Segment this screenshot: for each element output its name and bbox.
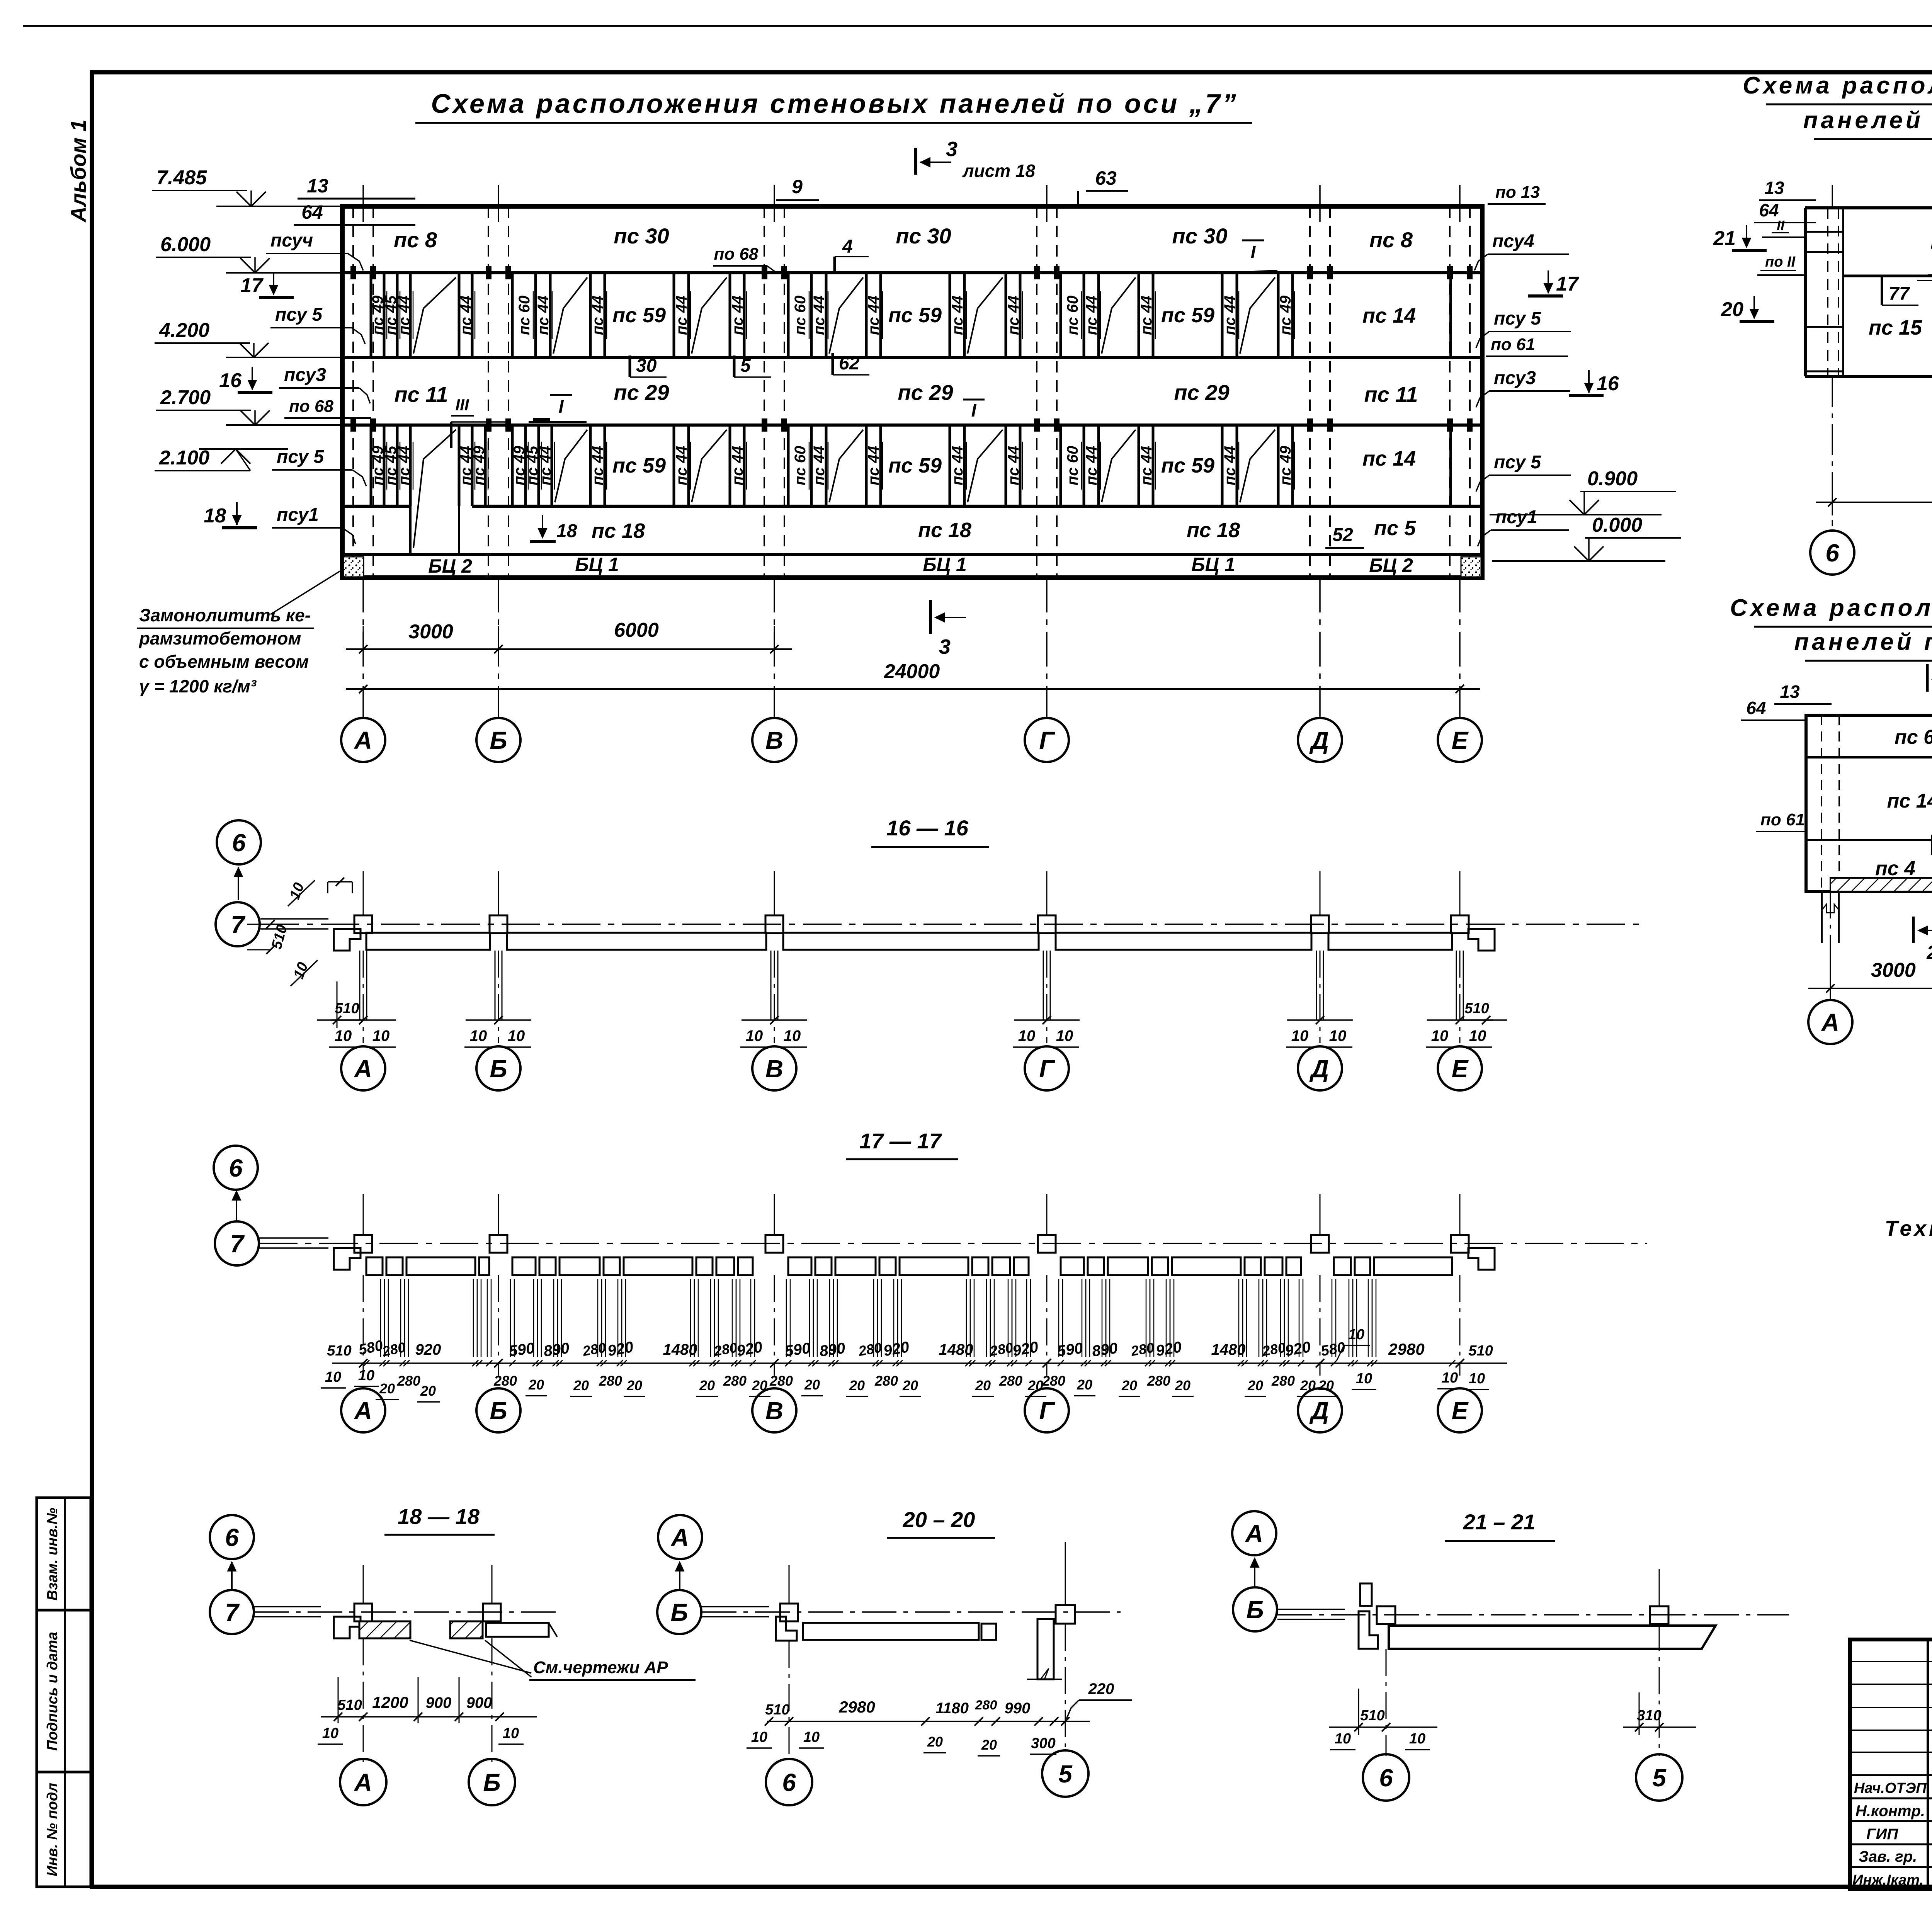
svg-text:20: 20 xyxy=(699,1378,715,1393)
svg-text:пс 15: пс 15 xyxy=(1869,316,1922,339)
svg-text:пс 30: пс 30 xyxy=(896,224,951,248)
svg-text:20: 20 xyxy=(981,1737,997,1753)
svg-text:4: 4 xyxy=(842,236,853,257)
axis dashdot below 17-17 xyxy=(363,1275,364,1376)
svg-text:III: III xyxy=(455,396,469,414)
scheme 6 column stubs below xyxy=(1821,891,1823,943)
svg-text:2980: 2980 xyxy=(838,1698,875,1716)
svg-text:10: 10 xyxy=(746,1027,763,1044)
axis circles 6/5 scheme B xyxy=(1810,531,1854,575)
strip band2 bay G-D xyxy=(1060,273,1062,357)
svg-text:920: 920 xyxy=(415,1341,441,1358)
strip band4 bay V-G xyxy=(787,425,790,506)
svg-text:5: 5 xyxy=(1652,1764,1667,1792)
svg-text:10: 10 xyxy=(325,1369,341,1385)
svg-text:пс 5: пс 5 xyxy=(1374,517,1416,540)
svg-text:пс 49: пс 49 xyxy=(1277,446,1294,485)
svg-text:10: 10 xyxy=(1409,1731,1425,1747)
svg-text:рамзитобетоном: рамзитобетоном xyxy=(138,628,301,648)
svg-text:пс 59: пс 59 xyxy=(612,454,666,477)
row line under ps11/ps29 band xyxy=(342,423,1482,427)
svg-text:17 — 17: 17 — 17 xyxy=(859,1129,942,1153)
corner wall piece 20-20 xyxy=(776,1617,797,1641)
svg-text:0.000: 0.000 xyxy=(1592,514,1642,536)
hatched slab B 18-18 xyxy=(450,1621,483,1638)
svg-text:280: 280 xyxy=(1042,1373,1065,1389)
svg-text:1480: 1480 xyxy=(1211,1341,1246,1358)
svg-text:Схема расположения стеновых: Схема расположения стеновых xyxy=(1743,72,1932,99)
svg-text:6000: 6000 xyxy=(614,619,659,641)
svg-text:17: 17 xyxy=(240,274,264,297)
svg-text:20: 20 xyxy=(420,1383,436,1399)
svg-text:10: 10 xyxy=(503,1725,519,1742)
svg-text:10: 10 xyxy=(1056,1027,1073,1044)
wall axis line 16-16 xyxy=(260,923,1647,925)
axis circles 17-17 xyxy=(341,1388,385,1432)
svg-text:БЦ 1: БЦ 1 xyxy=(1191,554,1235,575)
svg-text:пс 44: пс 44 xyxy=(729,446,746,485)
svg-text:пс 44: пс 44 xyxy=(949,296,966,335)
svg-text:пс 29: пс 29 xyxy=(614,380,669,405)
view circles 6/7 for 18-18 xyxy=(210,1515,254,1559)
mark 30 under band2 xyxy=(629,355,631,377)
svg-text:280: 280 xyxy=(999,1373,1022,1389)
svg-text:10: 10 xyxy=(358,1367,374,1384)
svg-text:Б: Б xyxy=(490,1055,507,1083)
svg-text:Е: Е xyxy=(1452,726,1469,754)
svg-text:А: А xyxy=(670,1524,689,1551)
paper edge top line xyxy=(23,25,1932,27)
svg-text:10: 10 xyxy=(1431,1027,1449,1044)
svg-text:20: 20 xyxy=(573,1378,589,1393)
axis dashdot + circles 18-18 xyxy=(363,1638,364,1762)
svg-text:280: 280 xyxy=(723,1373,747,1389)
svg-text:64: 64 xyxy=(1746,698,1766,718)
svg-text:220: 220 xyxy=(1088,1680,1114,1697)
thin slab right 18-18 xyxy=(486,1623,549,1637)
svg-text:пс 44: пс 44 xyxy=(1083,446,1100,485)
svg-text:I: I xyxy=(1251,242,1256,262)
svg-text:γ = 1200 кг/м³: γ = 1200 кг/м³ xyxy=(139,676,257,696)
svg-text:10: 10 xyxy=(1329,1027,1347,1044)
svg-text:10: 10 xyxy=(1469,1371,1485,1387)
tapered slab 21-21 xyxy=(1389,1626,1716,1649)
svg-text:20: 20 xyxy=(1175,1378,1190,1393)
svg-text:30: 30 xyxy=(636,355,657,376)
svg-text:Б: Б xyxy=(490,1397,507,1425)
svg-text:510: 510 xyxy=(765,1702,789,1718)
axis circles A-E main scheme xyxy=(341,718,385,762)
joint blobs at axes xyxy=(350,266,356,279)
dim 510 right 16-16 xyxy=(1460,1019,1507,1021)
svg-text:пс 40: пс 40 xyxy=(1930,231,1932,253)
svg-text:пс 18: пс 18 xyxy=(918,519,971,542)
svg-text:пс 60: пс 60 xyxy=(792,296,809,335)
slab panel rectangles 17-17 xyxy=(366,1257,383,1275)
svg-text:6.000: 6.000 xyxy=(160,233,211,256)
svg-text:II: II xyxy=(1777,218,1785,233)
mark 62 under band2 xyxy=(832,353,834,375)
svg-text:псу 5: псу 5 xyxy=(1494,308,1541,329)
svg-text:17: 17 xyxy=(1556,273,1579,295)
svg-text:20: 20 xyxy=(975,1378,991,1393)
svg-text:Инж.Iкат.: Инж.Iкат. xyxy=(1852,1872,1923,1888)
title block upper thin rows xyxy=(1850,1661,1932,1662)
upper wall stub 21-21 xyxy=(1360,1583,1372,1606)
svg-text:510: 510 xyxy=(1464,1000,1489,1017)
svg-text:5: 5 xyxy=(740,355,751,376)
svg-text:280: 280 xyxy=(1271,1373,1295,1389)
dim 3000 scheme 6 xyxy=(1808,988,1932,989)
svg-text:10: 10 xyxy=(1356,1371,1372,1387)
section mark 22 top xyxy=(1926,664,1929,692)
svg-text:пс 29: пс 29 xyxy=(898,380,953,405)
svg-text:псу 5: псу 5 xyxy=(1494,452,1541,473)
strip band2 bay V-G xyxy=(787,273,790,357)
column axis dashed joint lines xyxy=(352,206,354,578)
column stubs and dims below 16-16 xyxy=(359,951,361,1020)
svg-text:10: 10 xyxy=(751,1729,767,1745)
svg-text:300: 300 xyxy=(1031,1735,1055,1752)
svg-text:10: 10 xyxy=(803,1729,820,1745)
joint verticals below 17-17 xyxy=(380,1279,381,1357)
svg-text:пс 6: пс 6 xyxy=(1895,726,1932,748)
svg-text:7.485: 7.485 xyxy=(156,167,207,189)
svg-text:16: 16 xyxy=(219,369,242,392)
svg-text:по II: по II xyxy=(1765,254,1796,270)
svg-text:52: 52 xyxy=(1332,525,1353,545)
svg-text:Д: Д xyxy=(1309,726,1329,754)
svg-text:I: I xyxy=(559,396,564,417)
right corner wall piece 16-16 xyxy=(1468,929,1495,951)
scheme B axis lines down xyxy=(1832,185,1833,208)
svg-text:Технические условия и специфик: Технические условия и спецификацию см. н… xyxy=(1884,1216,1932,1240)
left stamp box Podpis i data xyxy=(37,1610,91,1772)
svg-text:22: 22 xyxy=(1926,942,1932,963)
view circles 6/7 for 16-16 xyxy=(217,820,261,864)
svg-text:20: 20 xyxy=(1077,1377,1092,1393)
svg-text:пс 44: пс 44 xyxy=(1138,446,1155,485)
svg-text:пс 44: пс 44 xyxy=(589,296,606,335)
svg-text:Зав. гр.: Зав. гр. xyxy=(1859,1848,1917,1865)
svg-text:ГИП: ГИП xyxy=(1866,1826,1898,1843)
view circles 6/7 for 17-17 xyxy=(214,1146,258,1190)
svg-text:10: 10 xyxy=(1291,1027,1309,1044)
svg-text:пс 59: пс 59 xyxy=(888,454,942,477)
strip band2 bay A-B (ps49 ps45 ps44 diag ps44) xyxy=(370,273,372,357)
mark 4 xyxy=(833,257,836,273)
svg-text:280: 280 xyxy=(493,1373,517,1389)
svg-text:БЦ 1: БЦ 1 xyxy=(575,554,619,575)
svg-text:В: В xyxy=(765,1397,783,1425)
scheme B left strip xyxy=(1842,208,1844,376)
svg-text:I: I xyxy=(971,400,977,420)
svg-text:панелей по оси „6”: панелей по оси „6” xyxy=(1794,629,1932,655)
svg-text:А: А xyxy=(354,1769,372,1796)
svg-text:7: 7 xyxy=(230,1230,245,1258)
svg-text:по 61: по 61 xyxy=(1491,335,1535,354)
svg-text:6: 6 xyxy=(229,1154,243,1182)
axis dashdot + circles 20-20 xyxy=(789,1641,790,1760)
svg-text:10: 10 xyxy=(322,1725,338,1742)
svg-text:5: 5 xyxy=(1058,1760,1073,1788)
svg-text:панелей по оси „Б”: панелей по оси „Б” xyxy=(1803,107,1932,134)
svg-text:с объемным весом: с объемным весом xyxy=(139,651,309,672)
svg-text:63: 63 xyxy=(1095,167,1117,189)
svg-text:24000: 24000 xyxy=(884,660,940,683)
svg-text:Подпись и дата: Подпись и дата xyxy=(44,1632,61,1751)
svg-text:пс 44: пс 44 xyxy=(865,296,882,335)
note leader line xyxy=(270,571,340,614)
svg-text:Б: Б xyxy=(1246,1596,1264,1624)
svg-text:пс 44: пс 44 xyxy=(396,296,413,335)
svg-text:590: 590 xyxy=(1056,1340,1084,1360)
svg-text:пс 59: пс 59 xyxy=(1161,454,1214,477)
svg-text:3: 3 xyxy=(939,635,951,658)
mark 5 under band2 xyxy=(733,355,736,377)
svg-text:Б: Б xyxy=(670,1599,688,1626)
svg-text:590: 590 xyxy=(508,1340,536,1360)
svg-text:пс 8: пс 8 xyxy=(1369,228,1413,252)
svg-text:77: 77 xyxy=(1889,284,1910,304)
mark 18 in band5 xyxy=(542,515,543,538)
svg-text:Замонолитить ке-: Замонолитить ке- xyxy=(139,605,311,625)
svg-text:пс 59: пс 59 xyxy=(612,304,666,327)
svg-text:510: 510 xyxy=(335,1000,359,1017)
svg-text:18: 18 xyxy=(556,521,577,541)
cut mark 17 right xyxy=(1548,270,1549,293)
svg-text:лист 18: лист 18 xyxy=(962,161,1036,181)
scheme 6 outline xyxy=(1806,715,1932,891)
svg-text:Г: Г xyxy=(1039,1055,1055,1083)
svg-text:пс 44: пс 44 xyxy=(1221,446,1238,485)
svg-text:280: 280 xyxy=(397,1373,420,1389)
wall axis line 17-17 xyxy=(259,1243,1647,1244)
svg-text:БЦ 2: БЦ 2 xyxy=(1369,554,1413,576)
column squares 16-16 xyxy=(354,915,372,933)
right corner wall piece 17-17 xyxy=(1468,1248,1495,1270)
svg-text:по 13: по 13 xyxy=(1495,183,1540,202)
svg-text:А: А xyxy=(354,1397,372,1425)
svg-text:пс 59: пс 59 xyxy=(1161,304,1214,327)
svg-text:А: А xyxy=(354,1055,372,1083)
svg-text:пс 44: пс 44 xyxy=(396,446,413,485)
svg-text:пс 44: пс 44 xyxy=(673,296,690,335)
svg-text:пс 49: пс 49 xyxy=(1277,295,1294,335)
svg-text:900: 900 xyxy=(466,1694,492,1711)
svg-text:Альбом 1: Альбом 1 xyxy=(66,119,90,223)
svg-text:пс 44: пс 44 xyxy=(1221,296,1238,335)
top bracket mark 16-16 xyxy=(328,881,352,883)
svg-text:Б: Б xyxy=(483,1769,500,1796)
svg-text:510: 510 xyxy=(1468,1343,1493,1359)
row line under strip band 2 xyxy=(342,356,1482,359)
svg-text:16: 16 xyxy=(1597,372,1619,395)
svg-text:пс 44: пс 44 xyxy=(589,446,606,485)
svg-text:Н.контр.: Н.контр. xyxy=(1855,1803,1925,1820)
svg-text:20: 20 xyxy=(902,1378,918,1393)
svg-text:В: В xyxy=(765,726,783,754)
vertical panel bar 20-20 xyxy=(1037,1619,1054,1679)
svg-text:пс 44: пс 44 xyxy=(535,296,552,335)
svg-text:пс 14: пс 14 xyxy=(1362,304,1416,327)
svg-text:Д: Д xyxy=(1309,1055,1329,1083)
scheme 6 row lines xyxy=(1806,756,1932,759)
mark 77 xyxy=(1881,276,1883,305)
svg-text:пс 60: пс 60 xyxy=(792,446,809,485)
svg-text:пс 44: пс 44 xyxy=(457,296,474,335)
svg-text:псу1: псу1 xyxy=(1495,507,1537,527)
svg-text:Д: Д xyxy=(1309,1397,1329,1425)
dim 6000 scheme B xyxy=(1816,502,1932,503)
svg-text:21 – 21: 21 – 21 xyxy=(1463,1510,1536,1534)
svg-text:1180: 1180 xyxy=(935,1700,969,1717)
svg-text:280: 280 xyxy=(975,1698,997,1713)
svg-text:пс 29: пс 29 xyxy=(1174,380,1229,405)
svg-text:6: 6 xyxy=(225,1524,239,1551)
svg-text:21: 21 xyxy=(1713,227,1736,250)
svg-text:А: А xyxy=(354,726,372,754)
scheme 6 mark 30 xyxy=(1931,835,1932,855)
svg-text:280: 280 xyxy=(769,1373,793,1389)
svg-text:13: 13 xyxy=(307,175,328,197)
svg-text:16 — 16: 16 — 16 xyxy=(886,816,969,840)
svg-text:20: 20 xyxy=(804,1377,820,1393)
svg-text:псу 5: псу 5 xyxy=(277,447,324,467)
left corner wall piece 18-18 xyxy=(334,1617,361,1638)
svg-text:890: 890 xyxy=(543,1340,570,1360)
svg-text:См.чертежи АР: См.чертежи АР xyxy=(533,1658,668,1677)
svg-text:20: 20 xyxy=(1247,1378,1263,1393)
svg-text:пс 44: пс 44 xyxy=(1083,296,1100,335)
svg-text:Взам. инв.№: Взам. инв.№ xyxy=(44,1508,61,1600)
svg-text:пс 49: пс 49 xyxy=(471,446,488,485)
svg-text:2.100: 2.100 xyxy=(159,447,209,469)
svg-text:10: 10 xyxy=(1335,1731,1351,1747)
svg-text:900: 900 xyxy=(426,1694,452,1711)
svg-text:10: 10 xyxy=(470,1027,487,1044)
svg-text:пс 11: пс 11 xyxy=(394,382,448,406)
wall axis line 21-21 xyxy=(1277,1614,1789,1616)
row line under ps8 band xyxy=(342,271,1482,274)
column squares 21-21 xyxy=(1377,1606,1395,1624)
dims 18-18 xyxy=(321,1716,537,1718)
svg-text:280: 280 xyxy=(599,1373,622,1389)
svg-text:БЦ 2: БЦ 2 xyxy=(428,555,472,577)
title block signature columns xyxy=(1927,1639,1929,1889)
svg-text:псу 5: псу 5 xyxy=(275,304,323,325)
svg-text:БЦ 1: БЦ 1 xyxy=(923,554,967,575)
svg-text:пс 44: пс 44 xyxy=(865,446,882,485)
svg-text:10: 10 xyxy=(1442,1370,1458,1386)
dim 510 left 16-16 xyxy=(317,1019,363,1021)
svg-text:4.200: 4.200 xyxy=(159,319,209,342)
svg-text:Схема расположения стеновых: Схема расположения стеновых xyxy=(1730,595,1932,621)
svg-text:А: А xyxy=(1821,1009,1839,1036)
svg-text:6: 6 xyxy=(782,1769,796,1796)
svg-text:пс 44: пс 44 xyxy=(811,296,828,335)
left corner wall piece 16-16 xyxy=(334,929,361,951)
svg-text:590: 590 xyxy=(784,1340,811,1360)
svg-text:пс 44: пс 44 xyxy=(537,446,554,485)
svg-text:1200: 1200 xyxy=(372,1693,408,1711)
axis dashdot + circles 21-21 xyxy=(1386,1649,1387,1756)
svg-text:пс 44: пс 44 xyxy=(1005,296,1022,335)
svg-text:64: 64 xyxy=(1759,200,1779,220)
svg-text:по 68: по 68 xyxy=(289,397,333,416)
svg-text:13: 13 xyxy=(1780,682,1800,702)
slab bars 16-16 xyxy=(366,933,490,950)
svg-text:пс 44: пс 44 xyxy=(1005,446,1022,485)
svg-text:пс 14: пс 14 xyxy=(1362,447,1416,470)
svg-text:890: 890 xyxy=(1091,1340,1119,1360)
svg-text:Е: Е xyxy=(1452,1397,1469,1425)
svg-text:10: 10 xyxy=(1469,1027,1486,1044)
strip band4 bay A-B with tall staircase panel xyxy=(370,425,372,506)
svg-text:пс 59: пс 59 xyxy=(888,304,942,327)
svg-text:6: 6 xyxy=(232,829,246,857)
svg-text:7: 7 xyxy=(231,911,246,939)
svg-text:псу4: псу4 xyxy=(1492,231,1534,252)
main outline xyxy=(342,206,1482,578)
svg-text:10: 10 xyxy=(784,1027,801,1044)
section mark 3 bottom xyxy=(929,600,932,634)
svg-text:пс 30: пс 30 xyxy=(614,224,669,248)
stipple corner blocks xyxy=(344,557,364,577)
svg-text:Е: Е xyxy=(1452,1055,1469,1083)
svg-text:510: 510 xyxy=(327,1343,351,1359)
view circles A/B for 20-20 xyxy=(658,1515,702,1559)
svg-text:пс 44: пс 44 xyxy=(673,446,690,485)
svg-text:10: 10 xyxy=(335,1027,352,1044)
hatched slab A 18-18 xyxy=(359,1621,410,1638)
svg-text:20: 20 xyxy=(379,1381,395,1396)
svg-text:20: 20 xyxy=(528,1377,544,1393)
svg-text:псуч: псуч xyxy=(270,230,313,251)
svg-text:пс 60: пс 60 xyxy=(1064,296,1081,335)
svg-text:Нач.ОТЭП: Нач.ОТЭП xyxy=(1854,1780,1927,1796)
svg-text:3000: 3000 xyxy=(1871,959,1916,981)
svg-text:пс 44: пс 44 xyxy=(729,296,746,335)
dims 21-21 xyxy=(1329,1726,1437,1728)
title block name rows xyxy=(1850,1774,1932,1776)
svg-text:10: 10 xyxy=(508,1027,525,1044)
row line under strip band 4 (gap at staircase panel) xyxy=(342,505,410,508)
svg-text:пс 4: пс 4 xyxy=(1875,857,1915,880)
svg-text:пс 11: пс 11 xyxy=(1364,382,1418,406)
axis circles A/B scheme 6 xyxy=(1830,958,1831,999)
slab bars 20-20 xyxy=(803,1623,979,1640)
svg-text:пс 30: пс 30 xyxy=(1172,224,1227,248)
section mark 22 bottom xyxy=(1912,917,1915,943)
svg-text:0.900: 0.900 xyxy=(1587,468,1638,490)
strip band4 bay B-V xyxy=(511,425,514,506)
svg-text:пс 60: пс 60 xyxy=(516,296,533,335)
wall axis line 20-20 xyxy=(702,1611,1121,1613)
scheme B mid line 8.700 xyxy=(1843,275,1932,277)
view circles A/B for 21-21 xyxy=(1232,1511,1276,1555)
svg-text:пс 44: пс 44 xyxy=(1138,296,1155,335)
svg-text:1480: 1480 xyxy=(939,1341,973,1358)
svg-text:пс 18: пс 18 xyxy=(1187,519,1240,542)
svg-text:990: 990 xyxy=(1005,1700,1031,1717)
row line under ps18 band xyxy=(342,553,1482,556)
edge strip verticals xyxy=(370,273,372,357)
svg-text:псу1: псу1 xyxy=(277,505,319,525)
svg-text:пс 60: пс 60 xyxy=(1064,446,1081,485)
svg-text:6: 6 xyxy=(1825,539,1839,567)
axis circles 16-16 xyxy=(341,1046,385,1090)
